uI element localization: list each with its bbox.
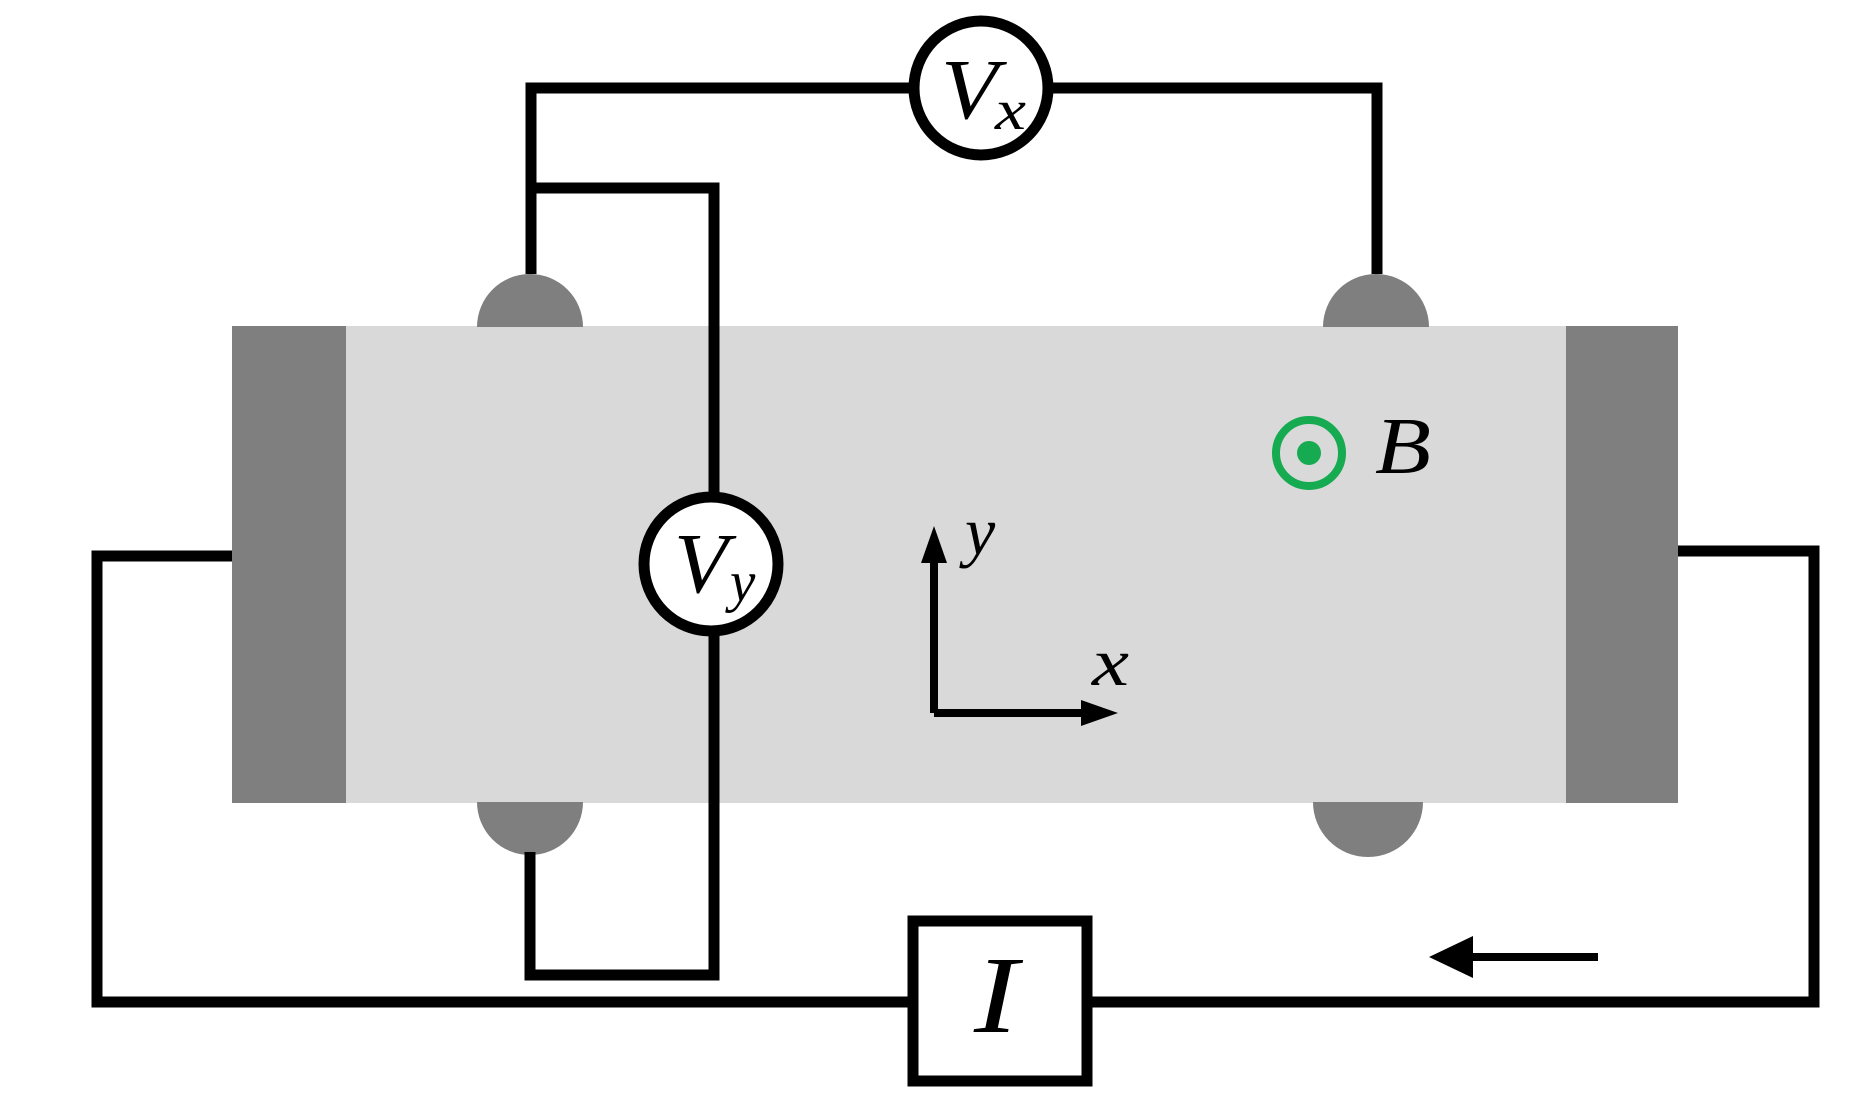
svg-text:x: x [994, 79, 1026, 142]
svg-text:y: y [959, 493, 996, 569]
svg-text:V: V [674, 515, 737, 611]
svg-text:y: y [725, 551, 756, 614]
svg-text:x: x [1091, 624, 1129, 700]
svg-text:I: I [973, 934, 1023, 1056]
svg-text:B: B [1375, 403, 1431, 491]
